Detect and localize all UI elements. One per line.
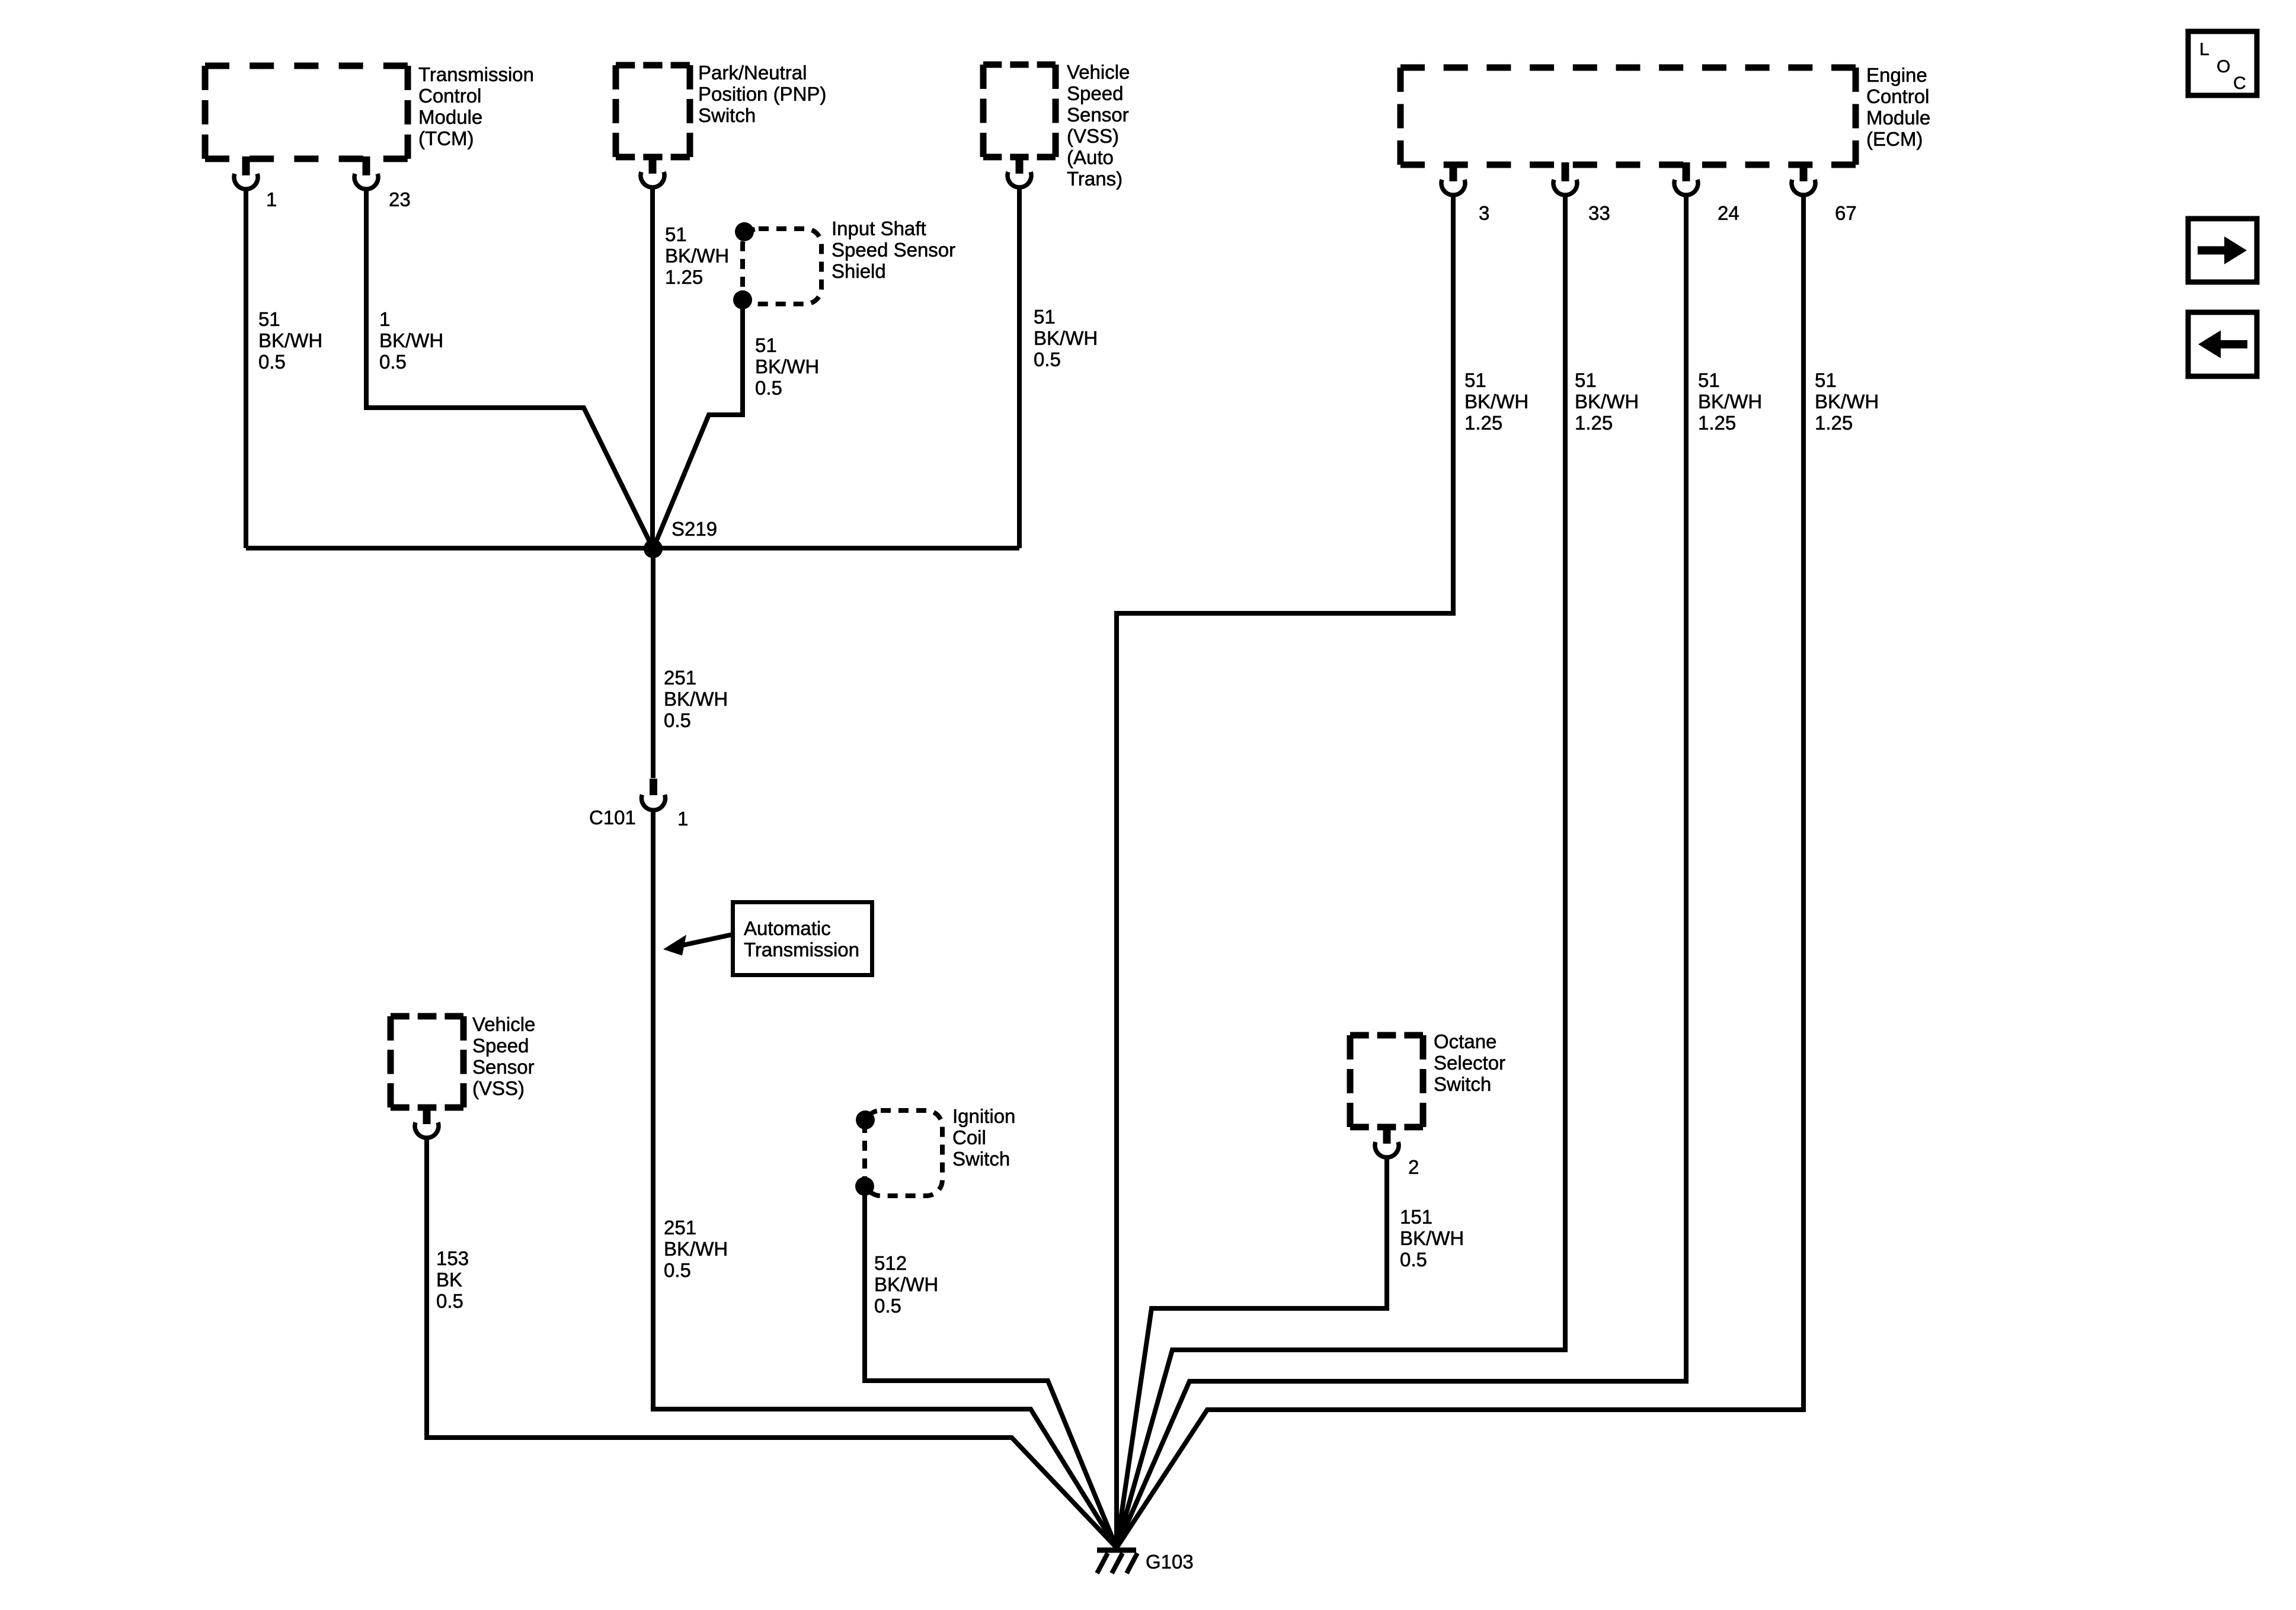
- svg-text:51: 51: [755, 334, 777, 356]
- label PNP Switch: [698, 62, 826, 126]
- svg-text:Transmission: Transmission: [418, 63, 534, 85]
- svg-text:(VSS): (VSS): [1067, 125, 1119, 147]
- svg-text:0.5: 0.5: [874, 1295, 901, 1317]
- svg-text:2: 2: [1408, 1156, 1419, 1178]
- pin 1 connector (TCM): [234, 156, 258, 189]
- svg-text:BK/WH: BK/WH: [1698, 391, 1762, 412]
- value label 251 BK/WH 0.5 (lower): [664, 1217, 728, 1281]
- svg-text:3: 3: [1479, 202, 1489, 224]
- wire 51 BK/WH 1.25 from PNP switch to S219: [650, 187, 655, 549]
- value label 151 BK/WH 0.5: [1400, 1206, 1464, 1270]
- svg-text:Trans): Trans): [1067, 168, 1123, 190]
- svg-text:512: 512: [874, 1252, 907, 1274]
- svg-text:Sensor: Sensor: [472, 1056, 535, 1078]
- label VSS (Auto Trans): [1067, 61, 1130, 190]
- svg-text:1: 1: [379, 308, 390, 330]
- svg-text:Coil: Coil: [952, 1126, 986, 1148]
- svg-text:153: 153: [436, 1247, 469, 1269]
- label Octane Selector Switch: [1434, 1030, 1505, 1095]
- value label 251 BK/WH 0.5 (upper): [664, 667, 728, 731]
- svg-text:51: 51: [1575, 369, 1597, 391]
- value label 51 BK/WH 1.25 (ECM pin 33 wire): [1575, 369, 1639, 434]
- svg-text:1.25: 1.25: [1464, 412, 1502, 434]
- pin 2 connector (Octane Selector Switch): [1375, 1125, 1399, 1157]
- pin 33 connector (ECM): [1553, 162, 1577, 195]
- wire 51 BK/WH 1.25 from ECM pin 33 to G103: [1117, 194, 1565, 1548]
- svg-text:0.5: 0.5: [258, 351, 286, 373]
- svg-text:BK/WH: BK/WH: [258, 329, 322, 351]
- callout arrow Automatic Transmission: [663, 934, 733, 956]
- svg-text:251: 251: [664, 667, 696, 689]
- value label 51 BK/WH 1.25 (PNP wire): [665, 223, 729, 288]
- svg-text:S219: S219: [671, 518, 717, 540]
- module box Octane Selector Switch: [1350, 1035, 1423, 1127]
- pin connector (VSS lower): [415, 1105, 439, 1138]
- svg-text:Octane: Octane: [1434, 1030, 1496, 1052]
- svg-text:(TCM): (TCM): [418, 127, 474, 149]
- svg-text:51: 51: [258, 308, 280, 330]
- svg-text:L: L: [2199, 40, 2209, 59]
- svg-text:Park/Neutral: Park/Neutral: [698, 62, 807, 84]
- value label 512 BK/WH 0.5: [874, 1252, 938, 1317]
- svg-text:51: 51: [1815, 369, 1837, 391]
- svg-text:BK/WH: BK/WH: [1575, 391, 1639, 412]
- svg-text:O: O: [2217, 57, 2230, 76]
- svg-text:Vehicle: Vehicle: [1067, 61, 1130, 83]
- module box Vehicle Speed Sensor (VSS) (Auto Trans): [983, 65, 1056, 157]
- svg-text:51: 51: [1698, 369, 1720, 391]
- legend arrow left box: [2188, 312, 2257, 376]
- svg-text:(ECM): (ECM): [1866, 128, 1923, 150]
- svg-text:Automatic: Automatic: [744, 917, 831, 939]
- svg-text:Ignition: Ignition: [952, 1105, 1015, 1127]
- svg-text:0.5: 0.5: [436, 1290, 463, 1312]
- svg-text:51: 51: [665, 223, 687, 245]
- wire 51 BK/WH 1.25 from ECM pin 67 to G103: [1117, 194, 1803, 1548]
- svg-text:BK/WH: BK/WH: [1400, 1227, 1464, 1249]
- svg-text:Switch: Switch: [698, 104, 756, 126]
- wire 251 BK/WH 0.5 from C101 down to G103: [653, 811, 1117, 1548]
- svg-text:G103: G103: [1146, 1551, 1194, 1573]
- svg-text:51: 51: [1464, 369, 1486, 391]
- svg-text:BK: BK: [436, 1269, 462, 1291]
- legend LOC box: [2188, 31, 2257, 95]
- svg-text:BK/WH: BK/WH: [664, 688, 728, 710]
- value label 51 BK/WH 1.25 (ECM pin 3 wire): [1464, 369, 1528, 434]
- svg-text:0.5: 0.5: [1034, 348, 1061, 370]
- wire 151 BK/WH 0.5 from octane selector switch to G103: [1117, 1157, 1387, 1548]
- legend arrow right box: [2188, 219, 2257, 282]
- svg-text:151: 151: [1400, 1206, 1432, 1228]
- svg-text:Input Shaft: Input Shaft: [832, 217, 926, 239]
- svg-text:Shield: Shield: [832, 260, 886, 282]
- value label 51 BK/WH 0.5 (VSS auto trans wire): [1034, 306, 1098, 370]
- label Input Shaft Speed Sensor Shield: [832, 217, 955, 282]
- switch symbol Ignition Coil Switch: [855, 1110, 942, 1196]
- callout box Automatic Transmission: [733, 902, 872, 975]
- module box Vehicle Speed Sensor (VSS) lower: [391, 1016, 463, 1108]
- svg-text:Control: Control: [418, 85, 481, 107]
- label ECM: [1866, 64, 1930, 150]
- svg-text:67: 67: [1835, 202, 1857, 224]
- label VSS lower: [472, 1013, 535, 1099]
- wire 51 BK/WH 0.5 from shield to S219: [653, 300, 743, 549]
- svg-text:Speed: Speed: [1067, 82, 1123, 104]
- value label 51 BK/WH 1.25 (ECM pin 24 wire): [1698, 369, 1762, 434]
- svg-text:Switch: Switch: [952, 1148, 1010, 1170]
- svg-text:C101: C101: [589, 806, 636, 828]
- wire 1 BK/WH 0.5 from TCM pin 23 to S219: [366, 188, 653, 549]
- ground G103: [1097, 1550, 1137, 1573]
- pin 67 connector (ECM): [1792, 162, 1815, 195]
- svg-text:BK/WH: BK/WH: [379, 329, 443, 351]
- svg-text:251: 251: [664, 1217, 696, 1238]
- splice S219: [644, 539, 663, 558]
- shield symbol Input Shaft Speed Sensor Shield: [733, 222, 821, 309]
- value label 51 BK/WH 0.5 (shield wire): [755, 334, 819, 399]
- wire 51 BK/WH 1.25 from ECM pin 3 to G103: [1117, 194, 1453, 1548]
- value label 1 BK/WH 0.5 (TCM pin 23 wire): [379, 308, 443, 373]
- svg-text:Module: Module: [418, 106, 482, 128]
- svg-text:(VSS): (VSS): [472, 1077, 525, 1099]
- svg-text:Sensor: Sensor: [1067, 104, 1129, 126]
- svg-text:BK/WH: BK/WH: [664, 1238, 728, 1260]
- svg-text:Speed Sensor: Speed Sensor: [832, 239, 955, 261]
- module box Park/Neutral Position (PNP) Switch: [616, 65, 690, 157]
- wire 51 BK/WH 0.5 from VSS (auto trans) down to S219 bus: [1017, 187, 1022, 548]
- wire 153 BK 0.5 from VSS lower to G103: [427, 1137, 1117, 1548]
- wire 51 BK/WH 1.25 from ECM pin 24 to G103: [1117, 194, 1686, 1548]
- svg-text:Position (PNP): Position (PNP): [698, 83, 826, 105]
- wire 251 BK/WH 0.5 from S219 to C101: [651, 549, 655, 778]
- pin 24 connector (ECM): [1674, 162, 1698, 195]
- svg-text:1: 1: [677, 808, 688, 830]
- pin connector (PNP Switch): [641, 155, 664, 187]
- svg-text:Speed: Speed: [472, 1035, 529, 1057]
- svg-text:1.25: 1.25: [1698, 412, 1736, 434]
- value label 153 BK 0.5: [436, 1247, 469, 1312]
- svg-text:Engine: Engine: [1866, 64, 1927, 86]
- wire 51 BK/WH 0.5 from TCM pin 1 down to S219 bus: [244, 188, 248, 548]
- module box Transmission Control Module (TCM): [205, 66, 408, 159]
- pin 23 connector (TCM): [354, 156, 378, 189]
- svg-text:51: 51: [1034, 306, 1056, 328]
- svg-text:BK/WH: BK/WH: [755, 356, 819, 377]
- pin 3 connector (ECM): [1441, 162, 1465, 195]
- svg-text:(Auto: (Auto: [1067, 146, 1114, 168]
- svg-text:1.25: 1.25: [1575, 412, 1613, 434]
- svg-text:BK/WH: BK/WH: [1815, 391, 1879, 412]
- svg-text:C: C: [2233, 73, 2246, 93]
- svg-text:0.5: 0.5: [1400, 1249, 1427, 1270]
- svg-text:BK/WH: BK/WH: [1464, 391, 1528, 412]
- wire S219 horizontal bus: [246, 546, 1019, 550]
- svg-text:Selector: Selector: [1434, 1052, 1505, 1074]
- label TCM: [418, 63, 534, 149]
- svg-text:24: 24: [1718, 202, 1739, 224]
- svg-text:Switch: Switch: [1434, 1073, 1491, 1095]
- svg-text:Vehicle: Vehicle: [472, 1013, 535, 1035]
- label Ignition Coil Switch: [952, 1105, 1015, 1170]
- svg-text:BK/WH: BK/WH: [665, 245, 729, 267]
- svg-text:0.5: 0.5: [664, 1259, 691, 1281]
- svg-text:0.5: 0.5: [379, 351, 407, 373]
- svg-text:BK/WH: BK/WH: [1034, 327, 1098, 349]
- svg-text:Module: Module: [1866, 107, 1930, 129]
- svg-text:23: 23: [389, 188, 411, 210]
- svg-text:Control: Control: [1866, 85, 1929, 107]
- pin connector (VSS Auto Trans): [1008, 155, 1031, 187]
- svg-text:1.25: 1.25: [665, 266, 703, 288]
- value label 51 BK/WH 0.5 (TCM pin 1 wire): [258, 308, 322, 373]
- svg-text:1: 1: [266, 188, 277, 210]
- connector C101 pin 1: [642, 779, 666, 810]
- module box Engine Control Module (ECM): [1400, 68, 1856, 165]
- wire 512 BK/WH 0.5 from ignition coil switch to G103: [865, 1186, 1117, 1548]
- svg-text:0.5: 0.5: [755, 377, 782, 399]
- label Automatic Transmission: [744, 917, 859, 961]
- svg-text:33: 33: [1588, 202, 1610, 224]
- value label 51 BK/WH 1.25 (ECM pin 67 wire): [1815, 369, 1879, 434]
- svg-text:0.5: 0.5: [664, 709, 691, 731]
- svg-text:BK/WH: BK/WH: [874, 1273, 938, 1295]
- svg-text:1.25: 1.25: [1815, 412, 1853, 434]
- svg-text:Transmission: Transmission: [744, 939, 859, 961]
